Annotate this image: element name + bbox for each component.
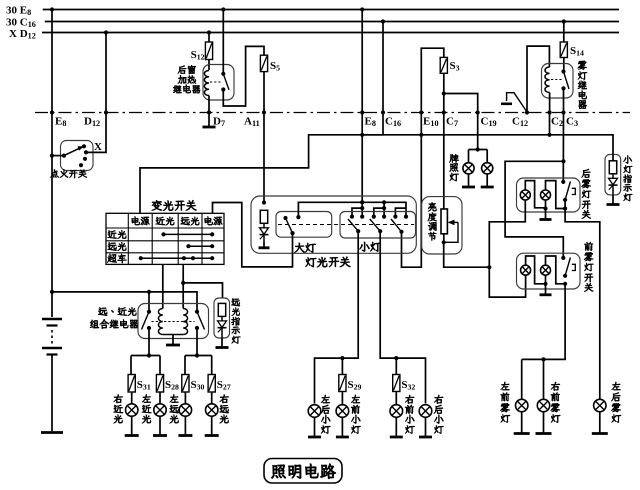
- ignition contact 4: [79, 163, 83, 167]
- junction feed E8: [360, 200, 364, 204]
- ground rear fog switch: [540, 209, 552, 220]
- svg-text:电源: 电源: [203, 214, 223, 227]
- junction S32 branch: [394, 356, 398, 360]
- svg-text:右近光: 右近光: [112, 393, 123, 426]
- fuse S14: [560, 42, 584, 58]
- svg-text:远光指示灯: 远光指示灯: [231, 296, 241, 347]
- ground lamp 左近光: [153, 416, 167, 436]
- ground lamp 左远光: [178, 416, 192, 436]
- light switch illumination lamp: [260, 210, 269, 241]
- combo relay dashed link: [152, 321, 195, 323]
- fuse S3: [440, 57, 459, 73]
- wire heater contact to S5: [223, 46, 264, 106]
- front fog lamp right 右前雾灯: [537, 399, 549, 411]
- wire fog coil to C2: [549, 93, 551, 113]
- small light terminal 4: [382, 215, 386, 219]
- junction E8 relay feed: [50, 290, 54, 294]
- ground lamp 右远光: [205, 416, 219, 436]
- right high beam lamp 右远光: [206, 404, 218, 416]
- wire low beam output: [162, 264, 164, 308]
- wire headlight output to table: [213, 203, 293, 267]
- wire pot output to illum net: [444, 242, 490, 267]
- junction E10 y134.8: [419, 133, 423, 137]
- small light terminal 5: [393, 215, 397, 219]
- small light arm 3: [391, 219, 402, 232]
- wire bus2 to S14: [563, 22, 565, 43]
- wire E8 battery line: [51, 10, 53, 318]
- junction bus1/E8 mid: [360, 7, 364, 11]
- wire S28 to lamp: [159, 392, 161, 404]
- wire S12 to relay coil: [208, 60, 210, 71]
- wire A11 down to light switch: [263, 113, 265, 203]
- dashed link light switch: [278, 224, 414, 226]
- ground light switch illum: [259, 241, 270, 248]
- ffs arm detent: [572, 264, 576, 270]
- heater relay contact arm: [223, 74, 229, 90]
- small light arm 2: [370, 219, 380, 231]
- wire fuse S28 drop: [159, 356, 161, 375]
- fog relay coil: [545, 67, 550, 93]
- svg-text:牌照灯: 牌照灯: [449, 152, 459, 183]
- combo relay coil right winding: [183, 309, 187, 335]
- junction pot output: [442, 240, 446, 244]
- wire right front fog stem: [543, 359, 545, 399]
- ffs arm bottom: [563, 274, 567, 278]
- wire right output: [196, 328, 198, 356]
- svg-text:变光开关: 变光开关: [151, 199, 197, 214]
- wire ffs lamp2 top zigzag: [546, 256, 566, 284]
- lamp 左前小灯: [336, 405, 349, 418]
- fog relay dashed link: [551, 79, 562, 81]
- svg-text:远光: 远光: [180, 214, 200, 227]
- ground at D7: [203, 113, 216, 128]
- junction C19 centerline: [476, 110, 480, 114]
- junction bus2/C16: [381, 19, 385, 23]
- ground right front fog: [536, 412, 552, 434]
- headlight arm output: [290, 231, 294, 235]
- wire bus 30-C16: [45, 21, 619, 23]
- headlight contact right: [296, 215, 300, 219]
- svg-text:X: X: [94, 141, 102, 153]
- wire S14 to fog relay contact: [563, 58, 565, 72]
- rfs arm detent: [572, 188, 576, 194]
- junction D7 centerline: [207, 110, 211, 114]
- rear window heater relay box: [203, 65, 234, 101]
- table column line 3: [177, 213, 179, 264]
- junction E10 centerline: [419, 110, 423, 114]
- wire S5 to A11: [263, 72, 265, 113]
- junction stub t3: [382, 206, 386, 210]
- ground front fog switch: [540, 284, 552, 295]
- svg-text:右远光: 右远光: [218, 393, 229, 426]
- C12 switch symbol arm: [507, 93, 527, 112]
- wire stub t4: [383, 202, 385, 216]
- wire license lamp left stem: [468, 150, 470, 163]
- junction high beam indicator: [181, 281, 185, 285]
- right contact arm: [197, 312, 205, 330]
- junction stub t1: [360, 206, 364, 210]
- small light arm 1: [348, 219, 358, 231]
- small light sub-switch box 小灯: [340, 212, 416, 239]
- junction bus1/E8: [50, 7, 54, 11]
- left contact bottom: [147, 326, 151, 330]
- junction ffs output: [563, 282, 567, 286]
- wire S29 to lamp: [341, 392, 343, 405]
- potentiometer wiper arrow: [444, 220, 458, 243]
- wire S3 to C7 and dimmer pot: [443, 73, 445, 242]
- svg-text:后雾灯开关: 后雾灯开关: [580, 167, 591, 221]
- wire rfs lamp1 top zigzag: [525, 181, 545, 208]
- svg-text:亮度调节: 亮度调节: [427, 201, 437, 243]
- junction C7 centerline: [442, 110, 446, 114]
- svg-text:大灯: 大灯: [294, 242, 316, 256]
- junction C16 centerline: [381, 110, 385, 114]
- wire left output: [148, 328, 150, 356]
- junction bus3/D12: [104, 30, 108, 34]
- combo relay box: [138, 304, 209, 339]
- small light terminal 6: [404, 215, 408, 219]
- wire stub t1: [352, 208, 362, 217]
- wire ffs lamp1 top zigzag: [526, 256, 546, 284]
- small light terminal 2: [360, 215, 364, 219]
- dimmer switch table frame: [106, 213, 224, 264]
- indicator resistor+LED 远光指示灯: [218, 303, 227, 338]
- front fog switch lamp2: [541, 265, 551, 275]
- junction S29 branch: [340, 356, 344, 360]
- wire rfs lamp2 bottom: [545, 200, 547, 209]
- wire C12 to fog relay coil: [527, 46, 549, 112]
- svg-text:继电器: 继电器: [172, 83, 201, 96]
- right contact top: [195, 310, 199, 314]
- junction C2 y134.8: [547, 133, 551, 137]
- table row1 link: [164, 233, 213, 235]
- junction license lamp split: [476, 147, 480, 151]
- table row line 2: [106, 240, 224, 242]
- front fog switch box: [517, 253, 581, 289]
- wire X to D12: [86, 33, 106, 153]
- rfs contact top: [561, 180, 565, 184]
- rear fog switch lamp1: [520, 190, 530, 200]
- wire bus y134.8 to indicator: [362, 135, 613, 155]
- junction left lamp split: [147, 353, 151, 357]
- junction E8 mid centerline: [360, 110, 364, 114]
- wire license lamp bracket: [469, 149, 488, 151]
- junction illum net: [487, 265, 491, 269]
- ground license lamp left: [462, 174, 475, 187]
- junction C12 centerline: [525, 110, 529, 114]
- table column line 1: [127, 213, 129, 264]
- wire E10 vertical: [402, 48, 444, 267]
- svg-text:左前小灯: 左前小灯: [351, 393, 362, 436]
- junction E8 ignition feed: [50, 154, 54, 158]
- junction bus3/S12: [207, 30, 211, 34]
- fuse S12: [191, 42, 213, 61]
- row3 dot a: [139, 256, 143, 260]
- wire S30 to lamp: [184, 392, 186, 404]
- junction C3 centerline: [561, 110, 565, 114]
- svg-text:照明电路: 照明电路: [271, 460, 337, 482]
- row2 dot b: [210, 244, 214, 248]
- wire battery to relay contacts: [52, 292, 197, 312]
- wire C16 to dimmer table: [140, 22, 383, 214]
- svg-text:远、近光: 远、近光: [98, 305, 137, 318]
- combo relay coil bottom: [163, 334, 183, 336]
- centerline (connector boundary): [35, 112, 630, 114]
- wire bus X-D12: [42, 32, 619, 34]
- wire small light output1: [315, 231, 359, 403]
- fog relay contact arm: [564, 72, 570, 90]
- table row2 link: [188, 245, 212, 247]
- fog relay contact bottom: [561, 86, 565, 90]
- wire bus 30-E8: [43, 9, 619, 11]
- rfs arm bottom: [563, 198, 567, 202]
- svg-text:点火开关: 点火开关: [50, 167, 88, 180]
- headlight sub-switch box 大灯: [276, 212, 332, 238]
- fuse S30: [182, 375, 205, 393]
- wire small light output2: [380, 231, 425, 403]
- ignition switch box: [61, 141, 94, 171]
- table row line 3: [106, 252, 224, 254]
- wire fuse S30 drop: [184, 356, 186, 375]
- headlight contact left: [283, 216, 287, 220]
- ground combo relay coil: [166, 335, 180, 346]
- svg-text:右前小灯: 右前小灯: [405, 393, 416, 436]
- wire ffs output to front fog lamps: [522, 284, 565, 360]
- fuse S27: [208, 375, 231, 393]
- lamp 右后小灯: [419, 405, 432, 418]
- ffs switch arm: [565, 258, 570, 276]
- heater relay dashed link: [210, 81, 222, 83]
- ground 右后小灯: [419, 417, 432, 437]
- wire stub t3: [374, 208, 384, 217]
- heater relay contact top: [221, 72, 225, 76]
- indicator resistor+LED 小灯指示灯: [609, 161, 618, 195]
- wire fog contact to C3: [563, 88, 565, 112]
- wire to C19: [444, 94, 478, 150]
- svg-text:小灯指示灯: 小灯指示灯: [623, 153, 633, 204]
- front fog lamp left 左前雾灯: [516, 399, 528, 411]
- ignition contact X: [84, 150, 88, 154]
- wire S32 to lamp: [395, 392, 397, 405]
- wire S31 to lamp: [131, 392, 133, 404]
- small light terminal 3: [372, 215, 376, 219]
- junction A11 centerline: [262, 110, 266, 114]
- table column line 4: [201, 213, 203, 264]
- wire C3 to rear fog switch: [562, 113, 564, 182]
- junction left contact feed: [147, 290, 151, 294]
- arm3 output: [399, 230, 403, 234]
- battery symbol: [42, 319, 62, 355]
- title box 照明电路: [264, 459, 342, 484]
- wire rfs lamp1 to illum net: [489, 200, 525, 297]
- rear fog lamp left 左后雾灯: [594, 399, 606, 411]
- row3 dot d: [210, 256, 214, 260]
- wire license lamp right stem: [486, 150, 488, 163]
- junction right lamp split: [195, 353, 199, 357]
- ground left front fog: [514, 412, 530, 434]
- wire S32 drop: [395, 358, 397, 374]
- wire C3 detour to front fog switch: [505, 161, 563, 258]
- wire fuse S31 drop: [130, 356, 132, 375]
- table row line 1: [106, 227, 224, 229]
- right low beam lamp 右近光: [126, 404, 138, 416]
- ignition switch arm with arrow: [64, 146, 84, 155]
- wire rfs lamp2 top zigzag: [546, 181, 566, 209]
- wire S27 to lamp: [211, 392, 213, 404]
- wire bus3 to S12: [208, 33, 210, 43]
- ignition contact top: [82, 144, 86, 148]
- arm2 output: [378, 229, 382, 233]
- wire stub t5: [395, 208, 406, 217]
- row3 dot b: [182, 256, 186, 260]
- ground lamp 右近光: [125, 416, 139, 436]
- svg-text:左后小灯: 左后小灯: [321, 393, 332, 436]
- svg-text:雾灯继电器: 雾灯继电器: [576, 59, 587, 111]
- ground license lamp right: [481, 174, 494, 187]
- wire left lamp bracket: [131, 355, 160, 357]
- ignition contact 3: [83, 157, 87, 161]
- left high beam lamp 左远光: [179, 404, 191, 416]
- heater relay contact bottom: [221, 87, 225, 91]
- junction E8 mid y134.8: [360, 133, 364, 137]
- high beam indicator box: [214, 298, 230, 338]
- svg-text:灯光开关: 灯光开关: [305, 255, 351, 270]
- lamp 右前小灯: [390, 405, 403, 418]
- svg-text:电源: 电源: [130, 214, 150, 227]
- table row3 link: [141, 257, 212, 259]
- row3 dot c: [191, 256, 195, 260]
- junction A11 illumination: [262, 200, 266, 204]
- svg-text:超车: 超车: [107, 252, 127, 265]
- junction ffs lamp2 ground: [543, 282, 547, 286]
- wire coil to D7: [208, 96, 210, 113]
- ground 左后小灯: [308, 417, 321, 437]
- right contact bottom: [195, 326, 199, 330]
- svg-text:左近光: 左近光: [141, 393, 152, 426]
- wire bus1 to heater relay contact: [222, 10, 224, 74]
- svg-text:前雾灯开关: 前雾灯开关: [583, 240, 594, 294]
- svg-text:近光: 近光: [155, 214, 175, 227]
- svg-text:组合继电器: 组合继电器: [90, 318, 139, 331]
- wire right lamp bracket: [185, 355, 212, 357]
- svg-text:右前雾灯: 右前雾灯: [550, 380, 562, 425]
- front fog switch lamp1: [521, 265, 531, 275]
- wire switch feed bus: [298, 202, 406, 217]
- wire ignition input: [52, 155, 64, 157]
- wire left front fog stem: [521, 359, 523, 399]
- left contact arm: [142, 312, 150, 330]
- junction E8 centerline: [50, 110, 54, 114]
- svg-text:右后小灯: 右后小灯: [434, 393, 445, 436]
- fuse S28: [156, 375, 179, 393]
- ground left rear fog: [592, 412, 608, 434]
- wire high beam output: [182, 264, 184, 308]
- brightness adjust box 亮度调节: [422, 197, 462, 254]
- rear fog switch lamp2: [541, 190, 551, 200]
- rear fog switch box: [517, 178, 581, 212]
- battery end bar: [41, 431, 63, 434]
- junction bus1 contact feed: [221, 7, 225, 11]
- fuse S31: [128, 375, 151, 393]
- wire S29 drop: [341, 358, 343, 374]
- license plate lamp right: [482, 163, 493, 174]
- ffs contact top: [561, 256, 565, 260]
- potentiometer 亮度调节: [441, 209, 447, 234]
- light switch box 灯光开关: [251, 196, 416, 253]
- wire E8 mid vertical: [361, 10, 363, 217]
- wire C2 to y134.8: [549, 113, 551, 135]
- left low beam lamp 左近光: [154, 404, 166, 416]
- junction C2 centerline: [548, 110, 552, 114]
- svg-text:左后雾灯: 左后雾灯: [610, 380, 621, 425]
- small light indicator box: [605, 154, 621, 195]
- junction D12 centerline: [104, 110, 108, 114]
- fuse S32: [393, 375, 416, 392]
- ground 左前小灯: [336, 417, 349, 437]
- lamp 左后小灯: [308, 405, 321, 418]
- wire ffs lamp2 bottom: [545, 275, 547, 284]
- heater relay coil: [204, 71, 209, 96]
- table column line 2: [151, 213, 153, 264]
- headlight switch arm: [286, 218, 293, 233]
- junction rfs lamp2 ground: [543, 206, 547, 210]
- row2 dot a: [186, 244, 190, 248]
- ground 右前小灯: [390, 417, 403, 437]
- combo relay coil left winding: [158, 309, 162, 335]
- fuse S29: [339, 375, 362, 392]
- wire rfs arm to output: [565, 200, 600, 400]
- left contact top: [147, 310, 151, 314]
- license plate lamp left: [463, 163, 474, 174]
- junction feed t4: [382, 200, 386, 204]
- junction C3 split: [561, 159, 565, 163]
- junction S3/C19 split: [442, 91, 446, 95]
- wire to high beam indicator: [183, 283, 222, 298]
- row1 dot b: [210, 232, 214, 236]
- wire fuse S27 drop: [211, 356, 213, 375]
- wire left contact feed: [148, 292, 150, 312]
- junction front fog bracket: [541, 357, 545, 361]
- svg-text:小灯: 小灯: [359, 241, 381, 255]
- fuse S5: [260, 55, 280, 72]
- junction rfs output: [563, 206, 567, 210]
- svg-text:左远光: 左远光: [168, 393, 179, 426]
- wire indicator stem: [612, 154, 614, 161]
- small light terminal 1: [350, 215, 354, 219]
- junction E8 switch feed: [360, 200, 364, 204]
- fog lamp relay box: [542, 64, 574, 99]
- rfs switch arm: [565, 182, 570, 200]
- ground small light indicator: [607, 195, 620, 205]
- ground high beam indicator: [216, 338, 229, 348]
- svg-text:左前雾灯: 左前雾灯: [499, 380, 511, 425]
- fog relay contact top: [561, 69, 565, 73]
- row1 dot a: [161, 232, 165, 236]
- ignition input contact: [62, 154, 66, 158]
- arm1 output: [356, 229, 360, 233]
- C12 switch contact bar: [501, 103, 512, 106]
- junction bus2/S14: [562, 19, 566, 23]
- wire battery negative: [51, 355, 53, 432]
